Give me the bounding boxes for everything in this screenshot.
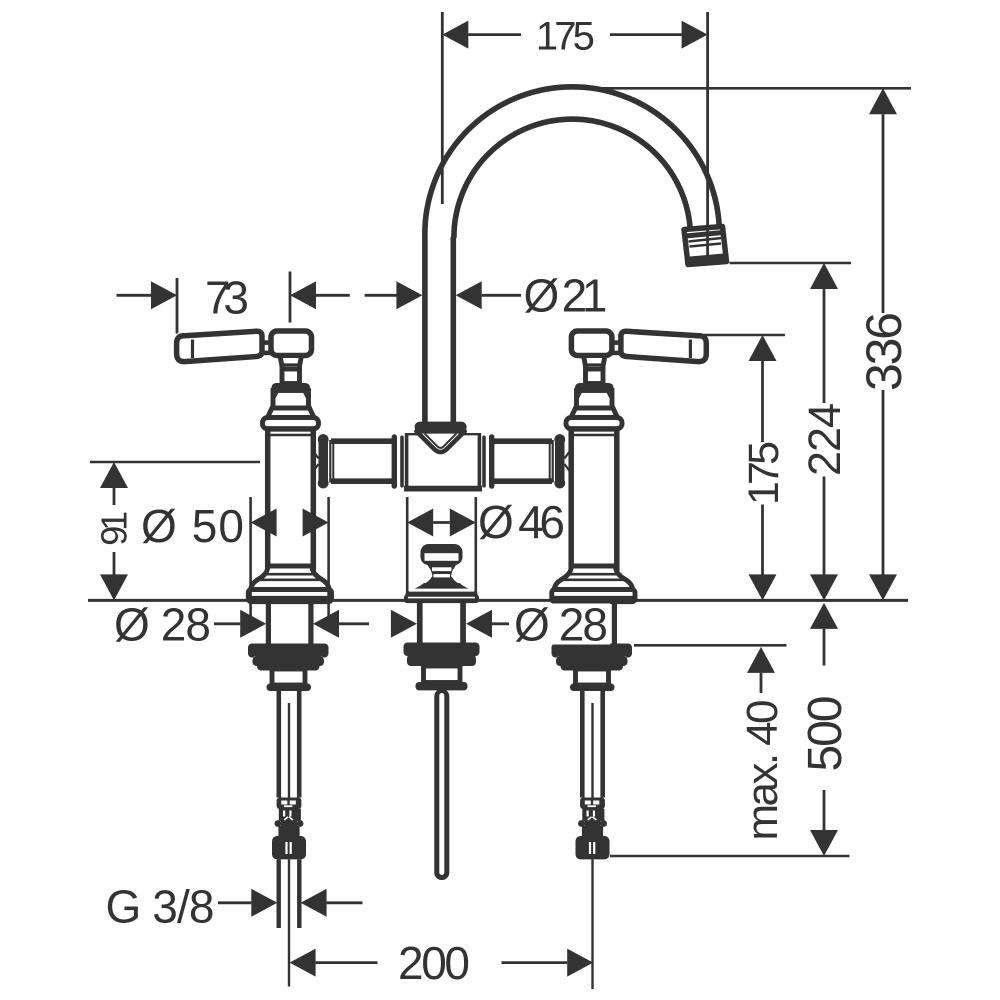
left valve flare (268, 408, 315, 418)
left valve neck ring (263, 418, 319, 429)
left valve lever handle (177, 331, 262, 361)
left valve body (268, 429, 314, 570)
right valve flare (571, 408, 618, 418)
dim diameter 21 (365, 294, 397, 297)
spout inner curve (454, 119, 690, 238)
svg-text:Ø 28: Ø 28 (114, 598, 211, 650)
svg-text:91: 91 (93, 511, 134, 546)
left valve supply pipe (276, 690, 281, 798)
svg-text:Ø 46: Ø 46 (478, 496, 565, 548)
pop-up knob shank (417, 603, 423, 645)
pop-up knob neck (424, 565, 460, 585)
right valve body (571, 429, 617, 570)
right valve lever handle (621, 331, 706, 361)
left valve cone joint (306, 441, 319, 482)
dim 175 top (468, 33, 521, 36)
spout outer curve (425, 87, 719, 238)
left valve hose below nut (277, 860, 281, 929)
right valve cone joint (565, 441, 578, 482)
left valve mounting nut (253, 657, 325, 667)
dim 175 top extension line right (706, 12, 709, 258)
svg-text:Ø 50: Ø 50 (141, 500, 244, 552)
left valve bar flange (319, 437, 329, 487)
svg-text:Ø 28: Ø 28 (514, 598, 608, 650)
left valve handle boss (271, 331, 312, 356)
svg-text:175: 175 (536, 14, 595, 58)
dim max 40 (747, 647, 775, 673)
right valve threaded shank (569, 602, 574, 646)
spout riser pipe (428, 237, 451, 423)
reference line spout outlet (730, 262, 852, 265)
reference line handle top (704, 334, 785, 337)
svg-text:Ø 21: Ø 21 (524, 270, 608, 322)
right valve supply pipe (580, 690, 585, 798)
T junction left flange (392, 434, 397, 489)
dim 73 extension lines (176, 278, 179, 334)
svg-text:G 3/8: G 3/8 (106, 881, 215, 933)
right valve washer (552, 644, 633, 658)
right valve handle boss (571, 331, 612, 356)
right valve mounting nut (556, 657, 628, 667)
right valve neck ring (566, 418, 622, 429)
left valve base skirt (251, 566, 329, 590)
reference line nut top (634, 644, 787, 647)
left valve threaded shank (266, 602, 271, 646)
T junction body (404, 432, 482, 490)
left valve stem (280, 356, 302, 370)
svg-text:73: 73 (205, 271, 249, 323)
spout aerator nozzle (684, 227, 727, 265)
T junction V joint (416, 431, 464, 452)
left valve lever neck (261, 340, 272, 345)
dim diameter 28 right (391, 610, 417, 638)
dim 175 top extension line left (441, 12, 444, 204)
T junction cap (415, 422, 467, 433)
left valve washer (248, 644, 329, 658)
bar right segment (491, 445, 553, 478)
left valve bonnet collar (272, 383, 311, 391)
svg-text:175: 175 (740, 441, 788, 505)
bar left segment (331, 445, 392, 478)
right valve bonnet collar (575, 383, 614, 391)
pop-up rod (434, 689, 449, 880)
reference line deck (88, 599, 908, 602)
svg-text:224: 224 (799, 403, 850, 476)
right valve center line (591, 860, 593, 990)
svg-text:200: 200 (398, 937, 470, 989)
dim diameter 50 (249, 497, 252, 618)
dim 224 (810, 263, 838, 289)
dim 336 (869, 88, 897, 114)
pop-up knob skirt (405, 583, 479, 595)
dim 500 (810, 603, 838, 629)
svg-text:336: 336 (856, 312, 912, 391)
reference line spout top (566, 87, 911, 90)
pop-up knob base (404, 595, 479, 604)
left valve hose hex nut (272, 836, 306, 859)
pop-up waste nut (404, 643, 480, 657)
right valve compression fitting (580, 798, 605, 810)
reference line hose end (610, 855, 850, 858)
left valve center line (288, 860, 290, 987)
dim 91 (90, 461, 260, 464)
right valve bar flange (555, 437, 565, 487)
right valve base skirt (554, 566, 632, 590)
dim 73 (117, 294, 152, 297)
spout annulus fill (425, 87, 719, 238)
pop-up knob head (421, 544, 463, 565)
right valve lever neck (611, 340, 622, 345)
left valve compression fitting (277, 798, 302, 810)
svg-text:max. 40: max. 40 (738, 700, 787, 841)
dim 175 right (749, 335, 777, 361)
right valve hose hex nut (576, 836, 610, 859)
dim diameter 46 (406, 497, 409, 593)
svg-text:500: 500 (799, 696, 852, 772)
right valve stem (584, 356, 606, 370)
T junction right flange (489, 434, 494, 489)
dim 200 (290, 949, 316, 977)
